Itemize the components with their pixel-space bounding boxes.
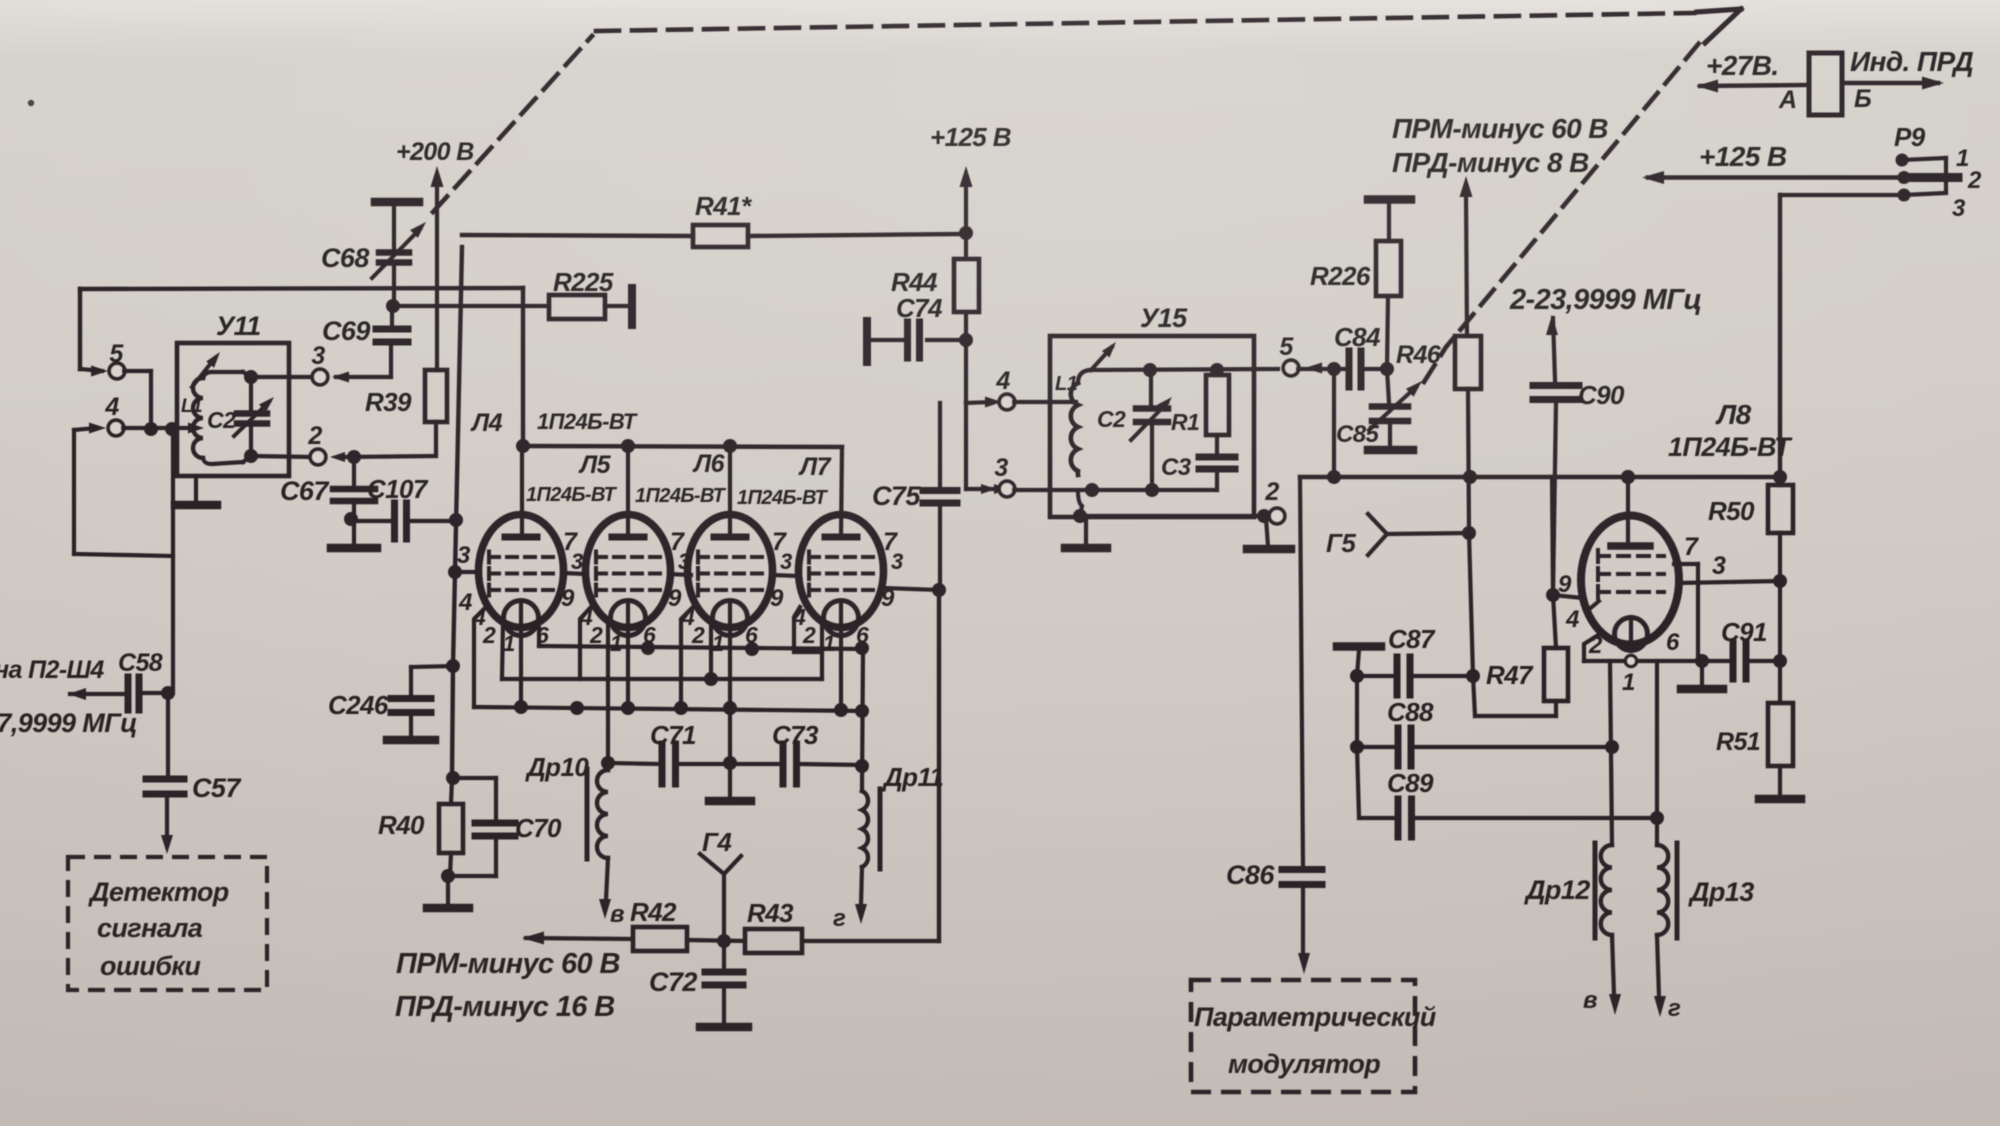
- inductor Др11: [833, 649, 943, 932]
- capacitor C246 with ground: [328, 690, 435, 740]
- terminal 4 (U15): [985, 367, 1076, 410]
- wire filament line Л5 to Др10: [606, 620, 610, 763]
- wire Р9 contact3 to R50 column: [1780, 195, 1904, 485]
- block error signal detector box: [68, 857, 267, 990]
- pin labels Л7: [792, 528, 903, 656]
- wire anode stem Л6: [728, 447, 732, 537]
- pin labels Л5: [579, 528, 690, 656]
- node +200V supply arrow: [396, 138, 474, 370]
- wire anode bus y=446: [516, 439, 842, 453]
- capacitor C87 with terminator bar: [1337, 624, 1473, 695]
- block U15 box: [1050, 303, 1254, 517]
- wire anode stem Л5: [626, 446, 630, 537]
- wire U11 tank bottom rail: [243, 449, 311, 463]
- terminal 5 (U15): [1279, 333, 1322, 376]
- pin labels Л4: [457, 528, 583, 656]
- capacitor C75 in series: [872, 403, 957, 590]
- node ПРМ/ПРД minus supply arrow: [1392, 113, 1608, 336]
- wire pin1 riser Л4: [502, 621, 503, 679]
- wire U15 top rail to terminal 5: [1090, 363, 1278, 377]
- wire filament stem Л6 to ground: [723, 635, 737, 770]
- pin labels Л8: [1558, 533, 1726, 696]
- resistor R41*: [462, 191, 966, 247]
- inductor Др13: [1654, 661, 1754, 1022]
- pin labels Л6: [681, 528, 792, 656]
- wire filament stem Л5: [626, 635, 630, 708]
- capacitor C57: [146, 693, 242, 854]
- terminal 5 (U11): [80, 289, 125, 379]
- node Г4 crystal: [700, 827, 741, 948]
- resistor R43: [745, 898, 802, 953]
- capacitor C91: [1708, 617, 1787, 679]
- wire pin2 Л8: [1584, 632, 1603, 661]
- ground above R226: [1368, 200, 1411, 242]
- capacitor C69: [322, 306, 408, 377]
- wire pin2 Л7: [794, 607, 822, 652]
- wire filament stem Л4: [519, 635, 523, 707]
- terminal 3 (U11): [311, 342, 391, 385]
- terminal 3 (U15): [981, 454, 1015, 497]
- tube Л5 (1П24Б-ВТ): [526, 451, 671, 636]
- capacitor C71: [608, 720, 730, 784]
- wire U11 tank top rail: [243, 370, 313, 384]
- wire pin1 rail (y=679): [502, 677, 822, 681]
- wire pin6 rail (y=647): [539, 628, 869, 656]
- capacitor C90: [1533, 380, 1625, 595]
- node anode supply rail y=477: [1300, 470, 1787, 484]
- ground under pin7 Л8: [1681, 661, 1723, 689]
- inductor L1 (U15): [1055, 370, 1090, 516]
- wire U15 ground rail (y=516): [1073, 509, 1271, 523]
- capacitor C74 with terminator bar: [867, 293, 973, 362]
- node pin4 stub Л8: [1586, 601, 1599, 618]
- inductor Др10: [525, 752, 624, 928]
- resistor R44: [891, 226, 979, 340]
- wire bias rail y=940 with arrow: [522, 932, 939, 945]
- capacitor C84: [1334, 322, 1394, 387]
- wire dashed tuning-linkage horizontal top: [596, 13, 1694, 31]
- wire grid link Л4-Л5: [563, 573, 586, 574]
- wire anode stem Л8: [1621, 470, 1635, 543]
- wire pin1 riser Л6: [704, 620, 718, 686]
- decor: [28, 100, 34, 106]
- ground under C71/C73: [709, 763, 751, 801]
- capacitor C85 (variable) with ground: [1336, 369, 1422, 450]
- relay contacts Р9: [1894, 122, 1982, 222]
- capacitor C89: [1357, 747, 1664, 837]
- ground U15 right: [1247, 518, 1291, 549]
- capacitor C73: [730, 720, 862, 784]
- node +27V connector А/Б: [1696, 46, 1973, 115]
- node bias supply labels: [395, 948, 620, 1023]
- block U11 box: [177, 311, 289, 476]
- wire left loop to C58: [74, 429, 173, 693]
- wire grid link Л6-Л7: [772, 575, 798, 576]
- wire dashed tuning-linkage diagonal (C68 to top): [433, 36, 592, 212]
- wire R43 to C75 column: [937, 590, 941, 941]
- capacitor C2 (U11, variable): [207, 377, 274, 456]
- resistor R39: [365, 370, 447, 455]
- resistor R42: [630, 897, 687, 951]
- wire grid link Л5-Л6: [669, 574, 691, 575]
- wire dashed tuning-linkage diagonal (C85 to top right): [1424, 42, 1700, 382]
- wire pin7 Л8 down: [1674, 564, 1698, 661]
- wire anode stem Л7: [841, 447, 842, 537]
- wire pin3 Л8 to divider: [1679, 574, 1787, 588]
- capacitor C72 with ground: [649, 941, 748, 1027]
- tube Л7 (1П24Б-ВТ): [737, 453, 884, 636]
- tube Л4 (1П24Б-ВТ): [470, 409, 638, 636]
- inductor Др12: [1524, 661, 1621, 1015]
- wire filament stem Л7: [839, 635, 843, 710]
- wire left bus down to R40: [446, 666, 460, 785]
- wire grid exit Л7 to C75 line: [883, 583, 946, 597]
- resistor R225 with terminator bar: [549, 267, 632, 325]
- wire R46/Г5 line down to C87 junction: [1466, 533, 1480, 683]
- wire left bus to C246: [411, 659, 460, 694]
- ground U15 left: [1065, 516, 1107, 548]
- resistor R40: [378, 778, 463, 876]
- terminal 4 (U11): [74, 371, 158, 436]
- capacitor C3 (U15): [1161, 435, 1235, 490]
- resistor R50: [1708, 485, 1793, 703]
- ground under R40: [427, 876, 469, 908]
- wire pin2 Л6: [681, 607, 693, 708]
- wire pin1 riser Л7: [820, 620, 824, 679]
- wire pin2 Л5: [580, 607, 591, 679]
- tube Л8 (1П24Б-ВТ): [1581, 399, 1793, 651]
- wire R44 junction down to terminals 4/3: [966, 340, 992, 489]
- capacitor C67: [280, 450, 377, 548]
- resistor R1 (U15): [1171, 370, 1229, 435]
- node Г5 crystal: [1326, 514, 1476, 558]
- block parametric modulator box: [1191, 980, 1437, 1092]
- wire terminal3 rail (U15, y=490): [1014, 483, 1217, 497]
- wire filament rail (y=708): [474, 700, 869, 718]
- resistor R47: [1473, 595, 1568, 716]
- node +125V supply arrow (middle): [930, 122, 1011, 233]
- capacitor C88: [1350, 676, 1619, 766]
- capacitor C68 (variable) with terminator bar: [321, 202, 426, 303]
- inductor L1 (U11): [181, 372, 243, 464]
- wire grid bus left (x=455): [448, 247, 479, 666]
- wire pin9 Л8 to R47 column: [1546, 477, 1583, 602]
- wire terminal4 to L1 with arrow: [123, 422, 204, 436]
- capacitor C58: [68, 649, 175, 710]
- wire terminal5 to C84 junction: [1298, 362, 1341, 477]
- wire filament rail Л8 (y=661): [1584, 654, 1709, 668]
- resistor R51 with ground: [1716, 703, 1801, 799]
- arrow linkage end (top right): [1697, 9, 1741, 43]
- wire anode bus +200 feed (x=523): [521, 288, 525, 446]
- tube Л6 (1П24Б-ВТ): [635, 450, 773, 636]
- terminal 2 (U11): [307, 422, 436, 465]
- node +125V arrow (right): [1642, 141, 1904, 184]
- terminal 2 (U15): [1264, 478, 1284, 524]
- arrow U15 tuning adjust: [1091, 342, 1116, 370]
- capacitor C107: [344, 474, 463, 539]
- wire top-left bus (y=288): [80, 288, 523, 289]
- wire anode stem Л4: [520, 446, 524, 537]
- ground U11: [175, 476, 217, 505]
- wire pin2 Л4: [474, 607, 486, 707]
- resistor R226: [1310, 241, 1401, 369]
- arrow U11 tuning adjust: [192, 352, 220, 387]
- wire C68/C69 junction to R225 (y=306): [386, 299, 549, 313]
- capacitor C2 (U15, variable): [1097, 370, 1172, 490]
- resistor R46: [1396, 336, 1481, 533]
- capacitor C86: [1226, 477, 1322, 974]
- node 2-23,9999 МГц output arrow: [1509, 284, 1702, 380]
- capacitor C70: [441, 778, 562, 883]
- node output to P2-Sh4 label: [0, 656, 137, 738]
